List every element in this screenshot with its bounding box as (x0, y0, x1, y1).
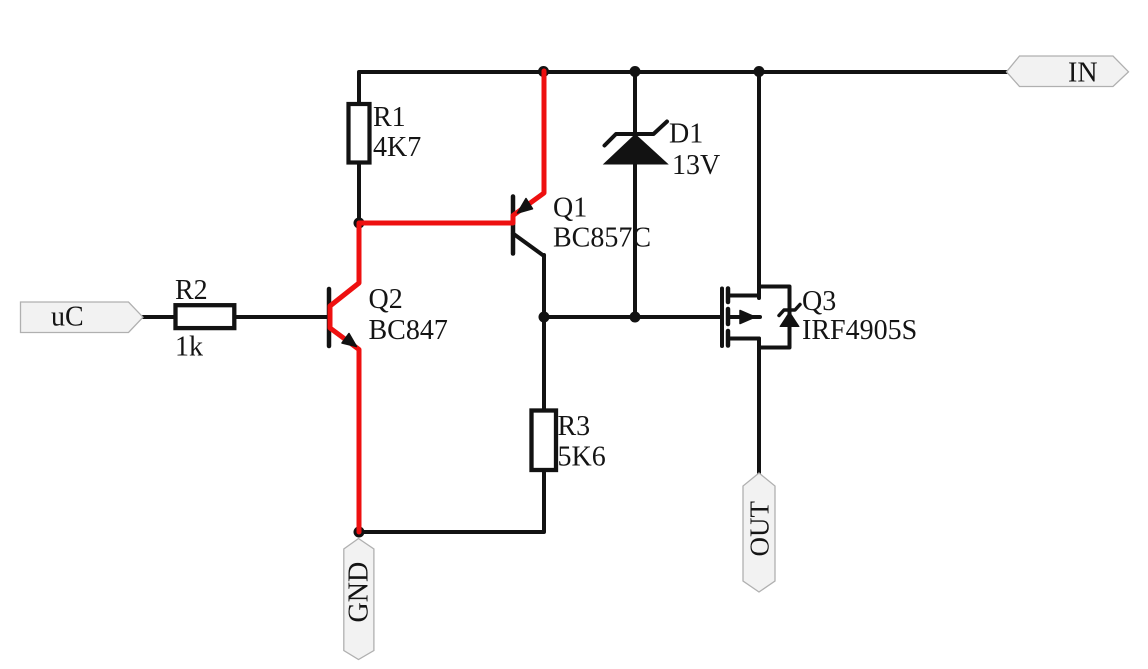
wire R1 bottom to node (357, 164, 361, 223)
resistor R1 (349, 104, 370, 163)
Q3 bulk lead (729, 315, 760, 319)
Q3 drain lead (729, 294, 759, 298)
wire D1 bottom lead to mid rail (633, 163, 637, 317)
Q1 emitter arrow (518, 199, 533, 214)
highlighted red net wire (Q1 emitter / base path through Q2) (330, 71, 544, 532)
label R3 value (558, 411, 606, 473)
svg-text:R3: R3 (558, 411, 591, 442)
transistor Q2 (NPN BC847) (327, 289, 332, 346)
svg-text:OUT: OUT (745, 501, 775, 557)
svg-text:BC847: BC847 (369, 315, 448, 346)
junction node top rail / D1 (630, 66, 641, 77)
net tag IN (1007, 56, 1129, 89)
Q3 body diode bar (779, 305, 800, 316)
svg-text:BC857C: BC857C (553, 223, 651, 254)
svg-text:4K7: 4K7 (373, 132, 421, 163)
svg-text:Q3: Q3 (802, 286, 836, 317)
Q3 channel segment bottom (726, 331, 731, 346)
MOSFET Q3 (IRF4905S) (722, 287, 800, 348)
junction node top rail / Q3 drain (754, 66, 765, 77)
svg-text:R1: R1 (373, 102, 406, 133)
junction node R1/Q1-base/Q2-collector (354, 218, 365, 229)
label Q3 value (802, 286, 917, 346)
resistor R3 (532, 411, 557, 471)
label Q1 value (553, 193, 651, 254)
svg-text:Q2: Q2 (369, 284, 403, 315)
label R1 value (373, 102, 421, 163)
transistor Q1 (PNP BC857C) (513, 197, 544, 257)
wire mid node down to R3 (542, 317, 546, 409)
wire D1 top lead (633, 72, 637, 134)
wire Q3 source to OUT (757, 339, 761, 474)
svg-text:Q1: Q1 (553, 193, 587, 224)
Q3 body diode triangle (780, 312, 799, 327)
junction node GND (354, 527, 365, 538)
svg-text:13V: 13V (672, 150, 720, 181)
wire Q1 collector to mid node (542, 255, 546, 317)
net tag GND (344, 539, 375, 660)
Q1 base bar (511, 197, 516, 254)
svg-text:IN: IN (1068, 58, 1098, 89)
Q3 channel segment middle (726, 309, 731, 324)
wire R2 to Q2 base (236, 315, 327, 319)
label R2 value (175, 275, 208, 363)
svg-text:uC: uC (51, 302, 84, 333)
svg-text:D1: D1 (669, 119, 703, 150)
wire Q3 drain to top rail (757, 72, 761, 298)
junction node mid rail / D1 (630, 312, 641, 323)
wire R3 bottom to GND rail (359, 472, 544, 532)
svg-text:GND: GND (344, 562, 375, 623)
svg-text:5K6: 5K6 (558, 442, 606, 473)
label D1 value (669, 119, 720, 182)
svg-text:R2: R2 (175, 275, 208, 306)
wire top rail from R1 to IN (359, 72, 1007, 102)
Q3 channel segment top (726, 289, 731, 303)
zener diode D1 (604, 122, 668, 165)
net tag uC (21, 302, 144, 333)
junction node top rail / Q1 emitter (538, 66, 549, 77)
Q2 emitter arrow (342, 334, 357, 347)
label Q2 value (369, 284, 448, 346)
Q2 base bar (327, 289, 332, 346)
wire uC to R2 (143, 315, 174, 319)
Q3 source lead (729, 337, 759, 341)
Q1 collector diagonal (513, 234, 544, 257)
svg-text:IRF4905S: IRF4905S (802, 315, 917, 346)
junction node mid rail / R3 (539, 312, 550, 323)
Q3 bulk arrow (740, 311, 755, 324)
Q3 gate bar (720, 289, 724, 347)
svg-text:1k: 1k (175, 332, 203, 363)
resistor R2 (176, 305, 235, 328)
wire mid node to Q3 gate (544, 315, 720, 319)
Q3 body diode loop (759, 287, 790, 348)
net tag OUT (743, 473, 775, 592)
